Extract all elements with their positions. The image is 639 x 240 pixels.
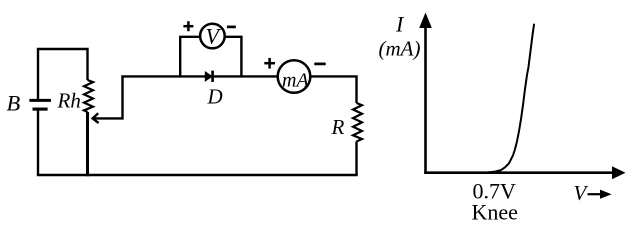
V arrow — [588, 190, 612, 199]
svg-text:(mA): (mA) — [379, 36, 421, 60]
svg-text:R: R — [331, 115, 345, 139]
voltmeter branch top-right wire — [225, 36, 243, 38]
svg-text:B: B — [7, 91, 21, 116]
wire: right vertical bottom — [355, 142, 357, 176]
diode I-V curve — [486, 25, 534, 173]
svg-text:D: D — [207, 85, 223, 109]
svg-text:I: I — [395, 11, 405, 36]
wire: diode to mA meter — [212, 75, 278, 77]
graph x-axis arrowhead — [612, 166, 626, 179]
rheostat Rh zigzag — [84, 80, 93, 112]
wire: main horizontal to diode — [121, 75, 205, 77]
voltmeter minus sign — [227, 26, 236, 29]
graph x-axis — [424, 171, 614, 174]
wire: left vertical top (battery top lead) — [38, 49, 88, 100]
ammeter plus sign — [264, 58, 275, 69]
battery B long plate — [29, 99, 51, 102]
voltmeter U1 circle — [200, 24, 225, 49]
wire: tap shaft and vertical up — [93, 76, 123, 118]
wire: left vertical bottom (battery bottom lead) — [37, 109, 39, 175]
ammeter minus sign — [314, 63, 325, 66]
svg-text:V: V — [574, 181, 589, 205]
svg-text:Knee: Knee — [472, 199, 518, 224]
ammeter mA circle — [278, 60, 311, 93]
voltmeter branch left vertical — [179, 37, 181, 77]
battery B short plate — [33, 108, 48, 111]
voltmeter branch top-left wire — [179, 36, 201, 38]
graph y-axis — [424, 24, 427, 174]
svg-text:Rh: Rh — [57, 88, 81, 112]
wire: bottom horizontal — [37, 174, 358, 176]
diode D symbol — [205, 71, 212, 82]
wire: Rh bottom vertical — [86, 112, 89, 176]
graph y-axis arrowhead — [419, 13, 432, 29]
svg-text:mA: mA — [282, 69, 309, 91]
voltmeter plus sign — [183, 21, 193, 31]
voltmeter branch right vertical — [240, 37, 242, 77]
resistor R zigzag — [353, 103, 362, 142]
wire: mA to right corner and down to R — [310, 76, 356, 103]
rheostat tap arrow — [93, 113, 99, 123]
